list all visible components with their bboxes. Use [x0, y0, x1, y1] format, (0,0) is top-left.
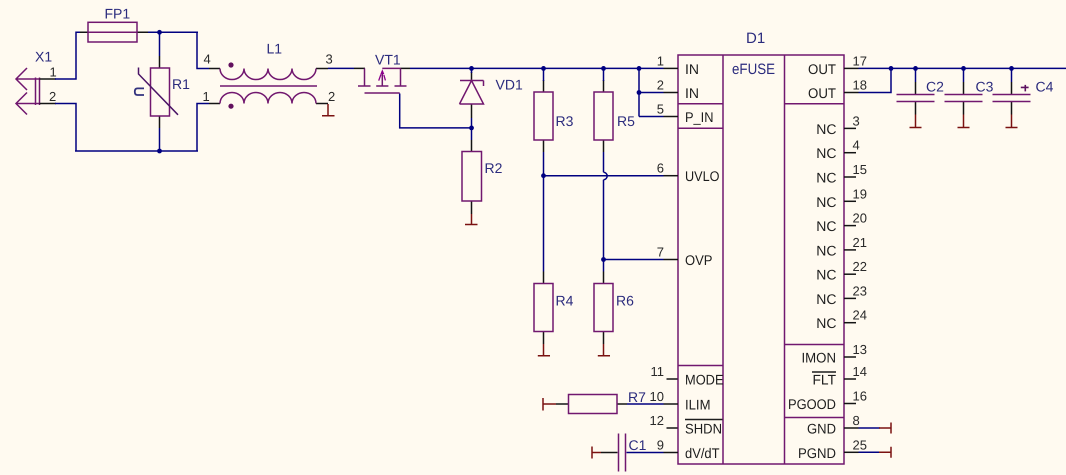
junction R3 top [541, 66, 546, 71]
wire PGND pin25 to port [859, 451, 881, 453]
wire VD1 anode to node B [471, 118, 473, 140]
svg-text:NC: NC [816, 242, 836, 258]
svg-text:R4: R4 [556, 293, 574, 309]
ground at L1 pin2 [322, 104, 335, 116]
svg-text:VT1: VT1 [375, 52, 401, 68]
svg-text:R7: R7 [628, 389, 646, 405]
wire L1 pin3 to VT1 [328, 67, 354, 69]
svg-text:5: 5 [657, 102, 664, 117]
svg-text:3: 3 [326, 52, 333, 67]
pin 9 dV/dT of D1 [657, 438, 720, 462]
pin 25 PGND of D1 [798, 437, 867, 461]
svg-text:13: 13 [853, 342, 867, 357]
svg-text:MODE: MODE [685, 372, 724, 388]
resistor R4 [534, 272, 574, 345]
svg-text:R1: R1 [172, 76, 190, 92]
svg-text:2: 2 [328, 89, 335, 104]
pin 8 GND of D1 [807, 413, 860, 437]
pin 1 IN of D1 [657, 53, 699, 77]
pin 1 of X1 [40, 65, 57, 80]
junction pin2 branch [637, 90, 642, 95]
svg-text:NC: NC [816, 218, 836, 234]
junction UVLO node [541, 173, 546, 178]
wire GND pin8 to port [859, 427, 881, 429]
svg-text:IN: IN [685, 85, 699, 101]
resistor R7 [556, 389, 646, 414]
svg-text:NC: NC [816, 315, 836, 331]
svg-text:15: 15 [853, 162, 867, 177]
svg-text:19: 19 [853, 186, 867, 201]
wire X1.1 to FP1 [55, 32, 80, 79]
svg-text:C1: C1 [629, 437, 647, 453]
svg-text:18: 18 [853, 78, 867, 93]
pin 11 MODE of D1 [651, 364, 724, 388]
ground below C3 [958, 115, 970, 128]
node A junction [157, 30, 162, 35]
svg-text:IN: IN [685, 61, 699, 77]
wire output rail [859, 67, 1066, 69]
svg-text:X1: X1 [35, 49, 52, 65]
pin 7 OVP of D1 [657, 245, 713, 269]
svg-text:NC: NC [816, 145, 836, 161]
svg-text:12: 12 [650, 413, 664, 428]
pin 12 SHDN of D1 [650, 413, 723, 437]
ground below C2 [910, 115, 922, 128]
svg-text:eFUSE: eFUSE [732, 61, 775, 78]
svg-text:17: 17 [853, 53, 867, 68]
node B junction [469, 126, 474, 131]
wire pin18 up to rail [859, 68, 892, 92]
ground below R2 [465, 214, 478, 225]
connector X1 [16, 49, 52, 115]
junction C4 rail [1009, 66, 1014, 71]
pin 16 PGOOD of D1 [788, 389, 867, 413]
wire rail to pin2 and pin5 [639, 68, 664, 116]
svg-text:7: 7 [657, 245, 664, 260]
svg-text:D1: D1 [746, 30, 765, 47]
wire bottom rail [75, 150, 198, 152]
svg-text:4: 4 [204, 52, 211, 67]
svg-text:VD1: VD1 [496, 77, 523, 93]
svg-text:16: 16 [853, 389, 867, 404]
pin 21 NC of D1 [816, 235, 867, 259]
ground below R6 [598, 344, 610, 356]
pin 20 NC of D1 [816, 211, 867, 235]
wire R5 top lead [603, 68, 605, 81]
choke L1 [209, 41, 328, 109]
pin 4 NC of D1 [816, 138, 859, 162]
resistor R5 [594, 80, 635, 152]
svg-text:1: 1 [50, 65, 57, 80]
svg-text:NC: NC [816, 291, 836, 307]
svg-text:dV/dT: dV/dT [685, 445, 720, 461]
wire node A to L1 pin4 [197, 32, 209, 68]
svg-text:OUT: OUT [808, 61, 836, 77]
svg-text:20: 20 [853, 211, 867, 226]
wire R3 top lead [543, 68, 545, 81]
svg-text:FLT: FLT [813, 372, 837, 388]
svg-text:4: 4 [853, 138, 860, 153]
junction pin1-pin2 branch [637, 66, 642, 71]
pin 15 NC of D1 [816, 162, 867, 186]
svg-text:R3: R3 [556, 113, 574, 129]
port terminal at C1 [592, 447, 601, 459]
svg-text:OVP: OVP [685, 252, 713, 268]
svg-text:PGOOD: PGOOD [788, 396, 836, 412]
IC D1 eFUSE body [678, 30, 844, 464]
wire R1 bottom [159, 128, 161, 151]
pin 14 FLT of D1 [812, 364, 867, 388]
svg-text:NC: NC [816, 121, 836, 137]
varistor R1 [135, 56, 190, 128]
svg-text:9: 9 [657, 438, 664, 453]
svg-text:8: 8 [853, 413, 860, 428]
wire R7 to pin10 [627, 403, 664, 405]
wire L1 pin1 down to bottom rail [197, 104, 209, 152]
pin 10 ILIM of D1 [650, 389, 711, 413]
pin 19 NC of D1 [816, 186, 867, 210]
resistor R6 [594, 272, 634, 345]
wire UVLO node to pin6 [544, 175, 664, 177]
wire R1 top [159, 32, 161, 56]
pin 13 IMON of D1 [802, 342, 867, 366]
pin 22 NC of D1 [816, 259, 867, 283]
ground below C4 [1006, 115, 1018, 128]
wire VT1 drain to output rail left [410, 67, 664, 69]
svg-text:IMON: IMON [802, 350, 837, 366]
svg-text:C4: C4 [1036, 79, 1054, 95]
pin 3 NC of D1 [816, 113, 859, 136]
svg-text:10: 10 [650, 389, 664, 404]
zener diode VD1 [460, 72, 523, 118]
svg-text:NC: NC [816, 267, 836, 283]
svg-text:22: 22 [853, 259, 867, 274]
svg-text:NC: NC [816, 170, 836, 186]
pin 2 IN of D1 [657, 78, 699, 102]
svg-text:6: 6 [657, 161, 664, 176]
junction C3 rail [961, 66, 966, 71]
port terminal at R7 [543, 398, 556, 411]
svg-text:1: 1 [203, 89, 210, 104]
svg-text:NC: NC [816, 194, 836, 210]
svg-text:24: 24 [853, 308, 867, 323]
ground port at pin8 [879, 423, 891, 434]
fuse FP1 [80, 6, 148, 43]
svg-text:C2: C2 [926, 79, 944, 95]
svg-text:25: 25 [853, 437, 867, 452]
capacitor C1 [601, 434, 647, 472]
svg-text:P_IN: P_IN [685, 109, 714, 125]
ground below R4 [538, 344, 550, 356]
svg-text:3: 3 [853, 113, 860, 128]
pin 2 of X1 [40, 89, 57, 104]
wire C1 to pin9 [627, 452, 664, 454]
pin 5 P_IN of D1 [657, 102, 714, 126]
svg-text:21: 21 [853, 235, 867, 250]
transistor VT1 [354, 52, 410, 94]
junction pin18 rail [889, 66, 894, 71]
wire R5 bottom to R6 [604, 152, 608, 272]
svg-text:PGND: PGND [798, 445, 836, 461]
resistor R2 [462, 140, 503, 214]
svg-text:OUT: OUT [808, 85, 836, 101]
svg-text:C3: C3 [976, 79, 994, 95]
svg-text:ILIM: ILIM [685, 397, 711, 413]
ground port at pin25 [879, 447, 891, 458]
svg-text:1: 1 [657, 53, 664, 68]
svg-text:R2: R2 [485, 160, 503, 176]
pin 24 NC of D1 [816, 308, 867, 332]
svg-text:GND: GND [807, 421, 836, 437]
wire VT1 gate down and right [400, 94, 472, 128]
junction C2 rail [913, 66, 918, 71]
capacitor C3 [945, 68, 994, 114]
wire R3 bottom to R4 [543, 152, 545, 272]
svg-text:FP1: FP1 [105, 6, 131, 22]
junction OVP node [601, 257, 606, 262]
svg-text:2: 2 [657, 78, 664, 93]
svg-text:11: 11 [651, 364, 665, 379]
wire OVP node to pin7 [604, 259, 664, 261]
pin 6 UVLO of D1 [657, 161, 720, 185]
svg-text:SHDN: SHDN [685, 421, 722, 437]
junction R5 top [601, 66, 606, 71]
svg-text:R5: R5 [617, 113, 635, 129]
wire X1.2 to bottom rail [55, 104, 76, 152]
junction R1 bottom rail [157, 149, 162, 154]
pin 23 NC of D1 [816, 283, 867, 307]
pin 17 OUT of D1 [808, 53, 867, 77]
svg-text:UVLO: UVLO [685, 168, 720, 184]
wire FP1 to node A [148, 31, 198, 33]
junction VD1 top [469, 66, 474, 71]
svg-text:L1: L1 [267, 41, 283, 57]
svg-text:2: 2 [49, 89, 56, 104]
resistor R3 [534, 80, 574, 152]
svg-text:R6: R6 [616, 293, 634, 309]
svg-text:14: 14 [853, 364, 867, 379]
pin 18 OUT of D1 [808, 78, 867, 102]
capacitor C2 [897, 68, 945, 114]
wire VD1 top lead [471, 68, 473, 73]
capacitor C4 polarized [993, 68, 1054, 114]
svg-text:23: 23 [853, 283, 867, 298]
